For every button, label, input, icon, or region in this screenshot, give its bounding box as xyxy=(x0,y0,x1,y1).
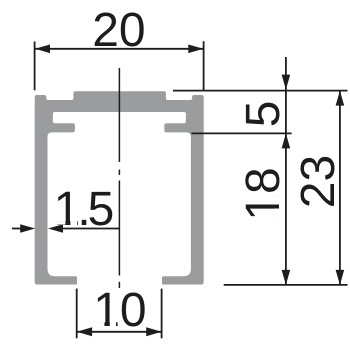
rail profile interior cavity (white cutout incl. slot, hooks, bottom opening) xyxy=(48,112,191,286)
svg-text:23: 23 xyxy=(292,155,345,208)
svg-text:20: 20 xyxy=(92,4,145,57)
dim 23: top arrow pointing up xyxy=(336,91,345,106)
dim 10: left arrow pointing left xyxy=(77,327,92,336)
dim 5: upper arrow pointing down xyxy=(282,75,291,90)
dim 5 / 18: shared vertical dimension line xyxy=(285,57,287,285)
dim 10: extension lines xyxy=(77,289,162,339)
svg-text:1.5: 1.5 xyxy=(54,183,113,236)
dim 20: right arrow xyxy=(188,45,203,54)
rail profile body (gray silhouette) xyxy=(35,91,204,284)
dim 20: dimension line xyxy=(35,48,203,50)
dim 23: bottom arrow pointing down xyxy=(336,270,345,285)
dim 18: bottom arrow pointing down xyxy=(282,270,291,285)
dim 1.5: right arrow pointing left at inner wall xyxy=(48,224,63,233)
dim 1.5: left arrow pointing right at outer wall xyxy=(12,228,21,230)
svg-text:18: 18 xyxy=(237,167,290,220)
dim 18: top arrow pointing up xyxy=(282,133,291,148)
extension line hook bottom (y=133.4) xyxy=(192,132,292,134)
serif trims to mimic Helvetica-style "1" glyphs xyxy=(56,196,280,327)
extension line top (y=90.6) xyxy=(173,90,348,92)
dim 10: right arrow pointing right xyxy=(146,327,161,336)
extension line bottom (y=284.9) xyxy=(224,284,348,286)
dim 20: extension lines xyxy=(35,41,204,90)
dim 23: vertical dimension line xyxy=(339,91,341,285)
svg-text:10: 10 xyxy=(93,284,146,337)
dim 10: dimension line xyxy=(77,331,162,333)
vertical centerline (dash-dot) xyxy=(118,68,120,288)
svg-text:5: 5 xyxy=(237,101,290,128)
dim 20: left arrow xyxy=(35,45,50,54)
